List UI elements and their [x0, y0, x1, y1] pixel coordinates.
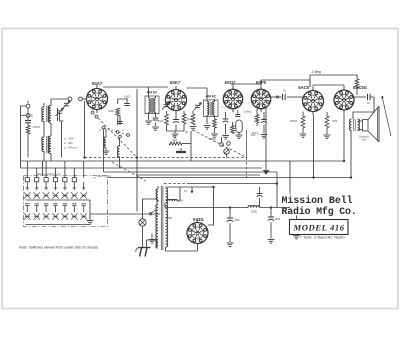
pushbutton switch bank row 2	[24, 204, 87, 220]
antenna coil core	[47, 106, 48, 123]
capacitor T2 bypass	[173, 113, 179, 131]
output transformer core	[354, 119, 356, 131]
subtitle	[300, 235, 346, 240]
svg-text:1Meg: 1Meg	[252, 131, 259, 135]
wire B+ riser	[276, 172, 278, 208]
ground arrow T4	[263, 171, 268, 175]
wire B+ riser 2	[289, 161, 291, 194]
wire mech dash link	[112, 162, 146, 181]
label V1 6SA7	[92, 81, 103, 86]
label V4 6SF5	[256, 80, 267, 85]
svg-text:1500: 1500	[251, 210, 258, 214]
ground T5	[300, 134, 307, 138]
resistor T2 cathode	[165, 111, 169, 126]
wire osc mid	[118, 116, 120, 125]
IF1 secondary coil	[154, 98, 156, 112]
title line 1 Mission Bell	[282, 195, 353, 206]
svg-text:3 - Phono: 3 - Phono	[64, 146, 78, 150]
resistor T6 bias	[325, 112, 329, 134]
node T1 grid circles	[91, 110, 98, 119]
volume pot contact 1	[220, 143, 224, 147]
ground osc coil	[103, 151, 110, 155]
resistor 1 Meg	[355, 79, 359, 95]
svg-text:Mission Bell: Mission Bell	[282, 195, 353, 206]
caption note	[19, 245, 99, 249]
power transformer fil winding left	[156, 186, 158, 202]
svg-text:8MF: 8MF	[235, 218, 241, 222]
resistor osc grid	[109, 108, 120, 116]
wire left col x42 drop	[42, 161, 44, 176]
label V5 6N7	[298, 85, 309, 90]
power transformer core	[161, 186, 163, 250]
SW band coil secondary L4	[49, 127, 51, 161]
IF2 core	[210, 102, 212, 116]
node dot e	[270, 207, 272, 209]
model text	[293, 223, 345, 233]
label .02	[366, 101, 370, 105]
wire plate bus T1-T2	[103, 86, 168, 88]
wire y183.5	[189, 183, 277, 185]
speaker cone	[368, 106, 379, 142]
switch bank dash-dot box	[24, 176, 108, 227]
wire bus y168	[21, 167, 263, 169]
model box	[290, 220, 349, 235]
band switch contact c	[119, 135, 122, 138]
wire ground-lead left	[20, 116, 22, 169]
svg-text:25M: 25M	[158, 119, 164, 123]
ground T4	[261, 135, 268, 139]
svg-text:.0001: .0001	[124, 95, 131, 99]
band switch contact b	[116, 131, 119, 134]
AC plug	[136, 248, 151, 257]
wire T3 contact lead	[221, 137, 223, 143]
ground IF2	[204, 126, 218, 138]
capacitor T3 det	[223, 112, 229, 135]
power transformer fil top	[168, 199, 178, 201]
svg-text:50M: 50M	[332, 119, 338, 123]
antenna coil primary L1	[42, 103, 44, 124]
wire tuning line	[58, 108, 64, 158]
wire IF2 top leads	[207, 88, 215, 102]
wire 1meg loop	[310, 75, 357, 87]
label 350	[251, 133, 256, 137]
label swA	[99, 128, 101, 132]
IF2 secondary coil	[213, 102, 215, 116]
label IF2 464 KC	[206, 95, 218, 99]
node dot a	[136, 157, 138, 159]
rectifier tube V7 5Y3G	[187, 219, 208, 247]
label 5V	[184, 189, 187, 193]
resistor T4 cathode	[255, 109, 259, 126]
svg-text:2 - BC: 2 - BC	[63, 141, 74, 145]
svg-text:Station pushbuttons: Station pushbuttons	[36, 172, 60, 176]
node dot b	[84, 157, 86, 159]
svg-text:7 Tube, 2 Band AC Radio: 7 Tube, 2 Band AC Radio	[300, 235, 346, 240]
wire psu right stub	[293, 216, 300, 239]
wire bus y172	[104, 171, 278, 173]
svg-text:5Y3G: 5Y3G	[193, 217, 204, 222]
wire B+ from rect	[164, 203, 166, 208]
svg-text:G: G	[30, 114, 33, 118]
wire main vertical bus x137	[136, 89, 138, 212]
label speaker	[359, 135, 370, 142]
capacitor IF1 bypass	[152, 118, 159, 131]
SW band coil primary L3	[42, 124, 44, 161]
ground T3 can	[236, 133, 243, 139]
volume pot contact 2	[227, 142, 231, 146]
antenna terminal A	[26, 100, 30, 108]
svg-text:50M: 50M	[109, 109, 115, 113]
wire OT to speaker	[358, 121, 363, 130]
oscillator coil L5	[104, 129, 106, 150]
ground T2 join	[172, 134, 179, 138]
node dot g	[350, 177, 352, 179]
field coil	[248, 206, 259, 214]
svg-text:250M: 250M	[187, 117, 195, 121]
wire plate stub	[191, 187, 193, 193]
wirewound resistor 300ohm	[169, 138, 191, 145]
pushbutton switch bank row 1	[24, 178, 87, 199]
antenna terminal G	[26, 114, 33, 118]
wire dash over transformer	[164, 183, 189, 185]
speaker pointer arrow	[382, 96, 391, 136]
grid cap connector 1	[68, 97, 72, 101]
trimmer ant	[63, 101, 71, 109]
label .1	[221, 105, 224, 109]
node dot i	[213, 186, 215, 188]
svg-text:Radio Mfg Co.: Radio Mfg Co.	[282, 206, 357, 217]
label 25M	[158, 119, 164, 123]
label IF1 464 KC	[147, 91, 159, 95]
wire T5-T6 plates	[313, 85, 344, 87]
ground bank	[87, 200, 94, 224]
wire osc top	[118, 99, 127, 104]
ground IF1	[145, 121, 152, 125]
band legend text	[63, 137, 78, 150]
svg-text:5V: 5V	[184, 189, 187, 193]
wire IF1 top leads	[149, 87, 156, 98]
wire x191 drop	[190, 131, 192, 161]
svg-text:6.3V: 6.3V	[178, 199, 184, 203]
capacitor psu filter 1	[227, 208, 234, 247]
tube V2 6SK7	[166, 86, 187, 114]
label 2Meg	[243, 110, 251, 114]
volume control pot	[224, 149, 230, 158]
on-off switch	[149, 210, 156, 216]
svg-text:6SA7: 6SA7	[92, 81, 103, 86]
title line 2 Radio Mfg Co	[282, 206, 357, 217]
tube V4 6SF5	[251, 86, 270, 112]
wire B+ bus	[165, 207, 290, 209]
speaker magnet	[363, 120, 369, 132]
svg-text:1 Meg: 1 Meg	[311, 70, 321, 74]
svg-text:.02: .02	[366, 101, 370, 105]
capacitor x259 stub	[257, 187, 263, 208]
wire avc dash mid	[193, 130, 247, 158]
band switch contact a	[102, 126, 105, 129]
tube V6 6AC5G	[334, 87, 354, 114]
resistor T2 screen	[182, 111, 195, 125]
capacitor psu filter 2	[268, 208, 275, 244]
tube V5 6AC5	[303, 87, 324, 115]
label V6 6AC5G	[353, 85, 367, 90]
label 250M	[187, 117, 195, 121]
antenna coil secondary L2	[49, 99, 51, 127]
wire grid down bus	[84, 101, 86, 158]
label .05 b	[184, 130, 188, 134]
wire HV bottom	[166, 247, 198, 251]
wire lamp top	[143, 199, 158, 219]
label 50M c	[332, 119, 338, 123]
svg-text:MODEL 416: MODEL 416	[293, 223, 345, 233]
label 8MF b	[275, 217, 281, 221]
capacitor T4 bypass	[261, 112, 267, 134]
wire avc bus dashed	[85, 157, 247, 159]
wire x119 drop	[119, 161, 121, 168]
resistor T5 bias	[301, 112, 305, 134]
label V3 6SQ7	[225, 80, 236, 85]
capacitor osc pad	[117, 116, 123, 124]
wire fil loop	[166, 187, 180, 201]
wire IF2 bottoms	[207, 115, 215, 120]
band switch contact d	[127, 134, 130, 137]
label 50M v	[290, 119, 298, 123]
capacitor coupling .01	[282, 89, 286, 101]
IF transformer 1 box	[145, 96, 159, 114]
svg-text:.05: .05	[184, 130, 188, 134]
svg-text:300: 300	[173, 138, 178, 142]
IF transformer 2 box	[204, 100, 219, 117]
wire T5 cathode	[313, 115, 315, 178]
ground HV ct	[166, 217, 173, 219]
wire bus y161	[21, 160, 346, 162]
svg-text:Note: Switches viewed from und: Note: Switches viewed from under side of…	[19, 245, 99, 249]
wire T6 plate out	[354, 96, 366, 98]
electrolytic can T3	[236, 120, 242, 133]
wire osc switch dashes	[105, 129, 128, 135]
wire plate bus T2	[187, 87, 208, 89]
svg-text:500M: 500M	[209, 137, 216, 141]
svg-text:1 - SW: 1 - SW	[64, 137, 75, 141]
wire to OT	[353, 97, 374, 119]
label swB	[122, 128, 124, 132]
svg-text:2 Meg: 2 Meg	[243, 110, 251, 114]
power transformer primary	[156, 205, 158, 248]
wire plate feed y80	[261, 80, 310, 87]
wire grid cap to tube	[82, 98, 86, 100]
wire plug right	[147, 240, 158, 248]
label wafer switch	[36, 172, 60, 176]
label 8MF a	[235, 218, 241, 222]
svg-text:Spkr: Spkr	[361, 138, 366, 142]
wire T6 cathode	[343, 114, 345, 161]
wire T4-T5 coupling	[271, 96, 303, 98]
ground psu primary	[149, 234, 156, 244]
capacitor T3 top	[235, 110, 240, 116]
trimmer IF2	[194, 103, 202, 111]
tuning capacitor gang 1	[56, 108, 64, 121]
wire bank feeds	[27, 161, 83, 178]
capacitor output	[368, 94, 371, 100]
wire bank bottom bus	[26, 224, 91, 226]
ground T2 screen	[190, 127, 197, 131]
label 1Meg b	[252, 131, 259, 135]
capacitor .5 blob	[176, 148, 186, 152]
wire dash vertical x246	[246, 158, 248, 178]
label 500	[209, 137, 216, 141]
wire avc dash from T1	[98, 118, 137, 158]
label 6.3V	[178, 199, 184, 203]
wire antenna bracket	[21, 106, 27, 116]
node dot d	[229, 207, 231, 209]
svg-text:Bank tuning: Bank tuning	[97, 174, 111, 178]
wire OT bottom	[350, 131, 352, 178]
svg-text:8MF: 8MF	[275, 217, 281, 221]
svg-text:6AC5: 6AC5	[298, 85, 309, 90]
output transformer sec	[358, 119, 360, 131]
svg-text:250M: 250M	[290, 119, 298, 123]
node junction	[276, 96, 278, 98]
svg-text:.01: .01	[282, 89, 286, 93]
svg-text:.00025: .00025	[32, 125, 40, 129]
output transformer prim	[350, 119, 352, 131]
oscillator coil L6	[117, 138, 119, 161]
wire bus y177.5	[108, 177, 352, 179]
svg-text:6SK7: 6SK7	[170, 80, 181, 85]
node dot c	[276, 183, 278, 185]
IF1 primary coil	[149, 98, 151, 112]
wire T4 down	[265, 107, 267, 170]
SW band coil core	[47, 136, 48, 153]
label ant sect	[32, 125, 40, 129]
label 1 Meg	[311, 70, 321, 74]
trimmer IF1 left	[162, 102, 170, 110]
label V2 6SK7	[170, 80, 181, 85]
tube V1 6SA7	[87, 85, 108, 113]
wire grid lead top	[51, 98, 68, 100]
wire fil top	[166, 187, 214, 225]
wire IF1 bottoms	[149, 113, 156, 121]
resistor IF2 return	[207, 119, 216, 133]
wire bank mid bus	[26, 199, 91, 201]
wire bus y175	[137, 174, 260, 176]
label bank tuning	[94, 174, 112, 178]
ground T3 det	[222, 136, 229, 140]
wire lamp bottom	[142, 226, 144, 247]
wire bank to psu	[91, 213, 161, 215]
capacitor .0001 osc	[124, 95, 131, 106]
label V7 5Y3G	[193, 217, 204, 222]
capacitor ant series	[25, 108, 31, 123]
wire T2 bottoms join	[167, 125, 185, 133]
grid cap connector 2	[79, 97, 83, 101]
resistor ant shunt	[26, 123, 30, 158]
tube V3 6SQ7	[223, 86, 242, 112]
IF1 core	[151, 98, 152, 113]
wire osc drop x103	[103, 129, 105, 172]
resistor T3 small	[231, 122, 235, 133]
wire T3 drop	[246, 130, 248, 158]
pilot lamp	[139, 219, 146, 226]
wire T3-T4 top	[233, 84, 261, 86]
power transformer HV secondary	[166, 188, 168, 247]
ground T6	[324, 135, 331, 139]
IF2 primary coil	[207, 102, 209, 116]
node dot h	[313, 177, 315, 179]
node dot f	[343, 160, 345, 162]
wire T1 plate lead	[97, 86, 103, 88]
label .05	[172, 134, 176, 138]
svg-text:6AC5G: 6AC5G	[353, 85, 367, 90]
